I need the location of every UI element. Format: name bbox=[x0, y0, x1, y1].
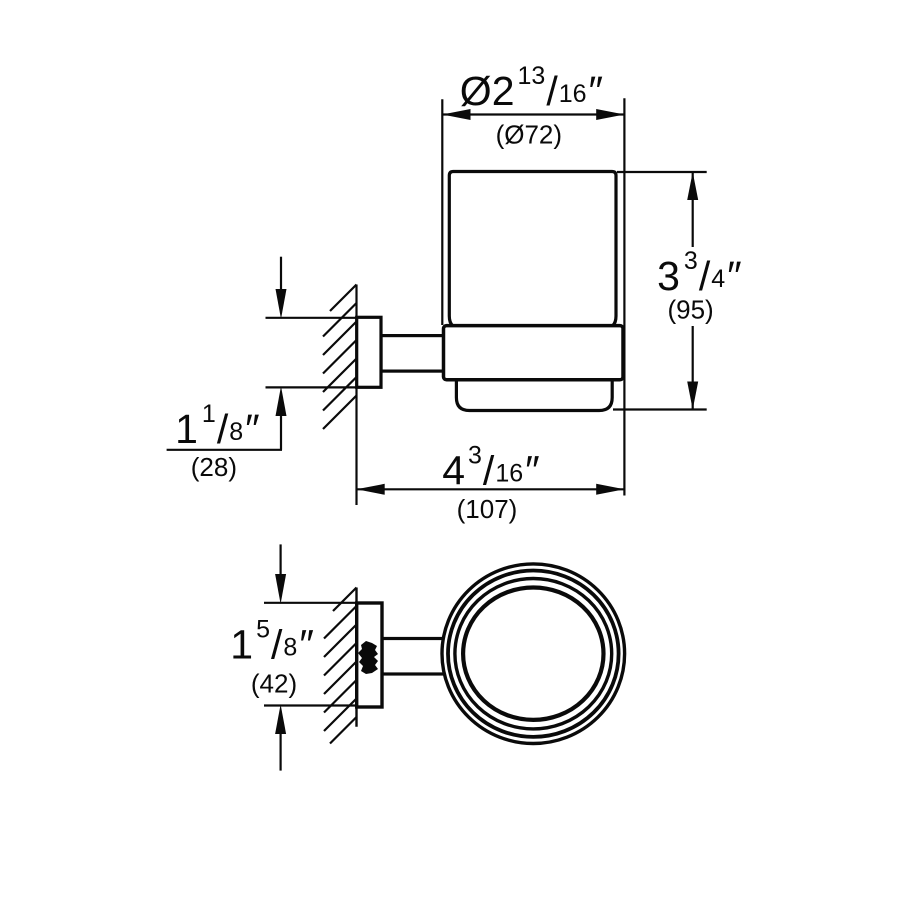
dimension 1 1/8 leader line bbox=[167, 449, 282, 451]
dimension 1 5/8 top tick bbox=[264, 602, 357, 604]
mounting arm (top view) bbox=[382, 639, 448, 675]
svg-text:11/8″: 11/8″ bbox=[175, 400, 260, 452]
dimension 3 3/4 top tick bbox=[617, 171, 707, 173]
dimension 1 5/8 bottom tick bbox=[264, 704, 357, 706]
svg-text:33/4″: 33/4″ bbox=[657, 247, 742, 299]
dimension 1 1/8 lower arrowhead (points up) bbox=[276, 386, 287, 416]
dimension 1 1/8 lower arrow stem bbox=[280, 414, 282, 450]
dimension 1 5/8 upper arrow stem bbox=[280, 544, 282, 576]
svg-text:(42): (42) bbox=[251, 669, 297, 699]
dimension 1 1/8 top tick bbox=[266, 317, 357, 319]
dimension 1 1/8 bottom tick bbox=[266, 386, 357, 388]
dimension 1 5/8 lower arrow stem bbox=[280, 732, 282, 771]
dimension 3 3/4 bottom tick bbox=[613, 408, 707, 410]
svg-text:(107): (107) bbox=[457, 494, 518, 524]
wall hatching (side view) bbox=[323, 285, 357, 430]
dimension 4 3/16 right arrowhead bbox=[596, 484, 624, 495]
mounting arm (side view) bbox=[381, 336, 448, 372]
wall hatching (top view) bbox=[324, 588, 357, 744]
svg-text:(28): (28) bbox=[191, 452, 237, 482]
dimension Ø72 right extension line bbox=[623, 98, 625, 495]
dimension Ø72 line bbox=[442, 113, 624, 115]
dimension 3 3/4 bottom arrowhead bbox=[687, 382, 698, 410]
dimension Ø72 right arrowhead bbox=[596, 109, 624, 120]
holder ring second circle (top view) bbox=[448, 571, 619, 737]
svg-text:15/8″: 15/8″ bbox=[230, 616, 314, 668]
dimension Ø72 left extension line bbox=[441, 99, 443, 325]
svg-text:(Ø72): (Ø72) bbox=[496, 120, 562, 150]
glass cup (side view) bbox=[449, 172, 616, 330]
mounting plate (top view) bbox=[357, 603, 382, 707]
holder ring third circle (top view) bbox=[455, 579, 612, 729]
glass bottom (side view) bbox=[456, 370, 612, 411]
knurled screw (top view) bbox=[358, 641, 378, 674]
holder ring (side view) bbox=[444, 326, 624, 380]
dimension 1 5/8 lower arrowhead (points up) bbox=[275, 704, 286, 734]
svg-text:(95): (95) bbox=[667, 295, 713, 325]
wall line (side view) bbox=[355, 285, 357, 506]
dimension 3 3/4 line upper segment bbox=[692, 172, 694, 247]
wall line (top view) bbox=[355, 588, 357, 727]
mounting plate (side view) bbox=[357, 317, 381, 387]
holder ring outer circle (top view) bbox=[442, 564, 625, 744]
dimension 4 3/16 line bbox=[357, 488, 625, 490]
dimension 3 3/4 top arrowhead bbox=[687, 172, 698, 200]
dimension 4 3/16 left arrowhead bbox=[357, 484, 385, 495]
dimension 1 1/8 upper arrow stem bbox=[280, 257, 282, 290]
dimension 1 1/8 upper arrowhead (points down) bbox=[276, 289, 287, 319]
holder ring inner circle (top view) bbox=[463, 588, 603, 720]
dimension Ø72 left arrowhead bbox=[442, 109, 470, 120]
dimension 3 3/4 line lower segment bbox=[692, 326, 694, 410]
dimension 1 5/8 upper arrowhead (points down) bbox=[275, 574, 286, 604]
svg-text:43/16″: 43/16″ bbox=[442, 442, 539, 494]
